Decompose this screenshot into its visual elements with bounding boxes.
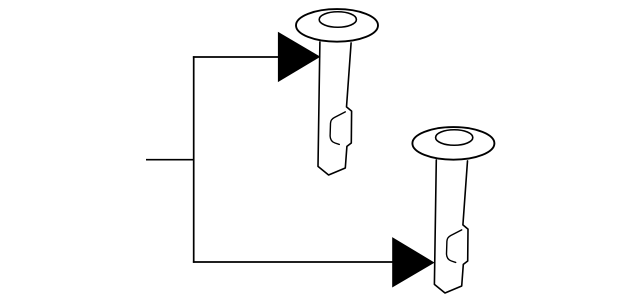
wire: left leader tick [146,159,194,161]
fastener 1 head inner ellipse [319,12,356,28]
fastener 1 head outer ellipse [296,9,378,42]
fastener 1 shaft [318,42,352,175]
fastener 2 head outer ellipse [412,127,494,160]
fastener 2 barb detail [447,230,462,263]
wire: top horizontal leader to arrow 1 [193,56,279,58]
wire: vertical leader [193,56,195,263]
fastener 2 (push-pin screw rivet) [412,127,494,293]
wire: bottom horizontal leader to arrow 2 [193,261,393,263]
fastener 2 head inner ellipse [436,130,473,146]
arrow 2 (points to fastener 2) [392,237,434,287]
fastener 2 shaft [434,160,468,293]
fastener 1 barb detail [330,112,345,144]
arrow 1 (points to fastener 1) [278,32,321,82]
fastener 1 (push-pin screw rivet) [296,9,378,175]
